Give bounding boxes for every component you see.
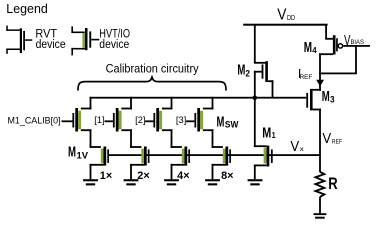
wire gate rail (M2/M3 gates to calibration drains) — [90, 97, 307, 99]
wire [1] to gate — [105, 120, 113, 122]
svg-text:8×: 8× — [221, 170, 233, 182]
svg-text:V: V — [322, 131, 331, 147]
legend RVT device symbol (NMOS, gate right) — [6, 26, 32, 54]
svg-text:Legend: Legend — [6, 2, 48, 16]
svg-text:device: device — [36, 39, 66, 51]
wire VDD rail — [243, 24, 327, 26]
svg-text:M: M — [304, 40, 312, 56]
svg-text:[2]: [2] — [135, 115, 145, 126]
ground under 4x device — [164, 179, 179, 185]
brace over calibration circuitry — [78, 77, 226, 90]
transistor M2 (diode-connected, RVT) — [254, 25, 274, 98]
svg-text:REF: REF — [300, 74, 313, 81]
wire resistor to ground — [319, 197, 321, 213]
svg-text:V: V — [290, 139, 299, 155]
legend HVT/IO device symbol (thick-oxide NMOS, green gate) — [71, 26, 99, 55]
svg-text:1V: 1V — [77, 150, 89, 160]
IREF current arrow — [316, 80, 324, 87]
wire [2] to gate — [145, 120, 153, 122]
svg-text:[3]: [3] — [176, 115, 186, 126]
wire Vx gate line (bottom-row gates, M1 gate to Vref node) — [108, 154, 320, 156]
svg-text:4: 4 — [312, 45, 317, 55]
resistor R zigzag — [316, 172, 325, 197]
transistor switch T3 (HVT, gate left) — [153, 97, 172, 148]
svg-text:V: V — [277, 7, 287, 24]
svg-text:REF: REF — [332, 139, 342, 146]
svg-text:M: M — [68, 145, 76, 161]
transistor M4 (diode-connected PMOS, gate bubble) — [319, 25, 370, 91]
svg-text:M: M — [262, 125, 271, 142]
svg-text:DD: DD — [287, 13, 295, 22]
transistor switch T2 (HVT, gate left) — [113, 97, 132, 148]
svg-text:M: M — [237, 62, 245, 78]
transistor switch T4 (HVT, gate left) — [194, 97, 213, 148]
ground under M1 — [248, 179, 263, 185]
transistor 2x mirror device (HVT, gate right) — [130, 146, 149, 179]
wire [3] to gate — [186, 120, 194, 122]
ground under 2x device — [124, 179, 139, 185]
svg-text:M: M — [322, 89, 330, 105]
M4 gate bubble — [338, 44, 342, 48]
svg-text:M1_CALIB[0]: M1_CALIB[0] — [8, 115, 61, 125]
svg-text:2: 2 — [245, 68, 250, 78]
svg-text:Calibration circuitry: Calibration circuitry — [106, 62, 200, 76]
svg-text:2×: 2× — [137, 170, 149, 182]
ground under 1x device — [83, 179, 98, 185]
transistor 1x mirror device (HVT, gate right) — [90, 146, 109, 179]
svg-text:M: M — [217, 113, 225, 130]
ground under 8x device — [205, 179, 220, 185]
transistor 8x mirror device (HVT, gate right) — [212, 146, 231, 179]
wire M1_CALIB[0] to T1 gate — [62, 120, 73, 122]
junction dot M2 gate / rail / M1 drain — [253, 95, 258, 100]
svg-text:device: device — [99, 39, 129, 51]
svg-text:1×: 1× — [100, 170, 112, 182]
transistor M3 (RVT, gate left) — [306, 89, 321, 172]
svg-text:[1]: [1] — [94, 115, 104, 126]
ground under resistor — [314, 213, 327, 219]
transistor M1 (HVT/IO, gate right) — [254, 98, 273, 179]
svg-text:4×: 4× — [177, 170, 189, 182]
svg-text:R: R — [328, 175, 337, 193]
transistor 4x mirror device (HVT, gate right) — [171, 146, 190, 179]
svg-text:SW: SW — [225, 120, 239, 130]
svg-text:x: x — [300, 146, 305, 153]
svg-text:BIAS: BIAS — [351, 39, 365, 46]
svg-text:3: 3 — [330, 95, 335, 105]
transistor switch T1 (HVT, gate left) — [72, 97, 91, 148]
svg-text:1: 1 — [272, 130, 276, 140]
